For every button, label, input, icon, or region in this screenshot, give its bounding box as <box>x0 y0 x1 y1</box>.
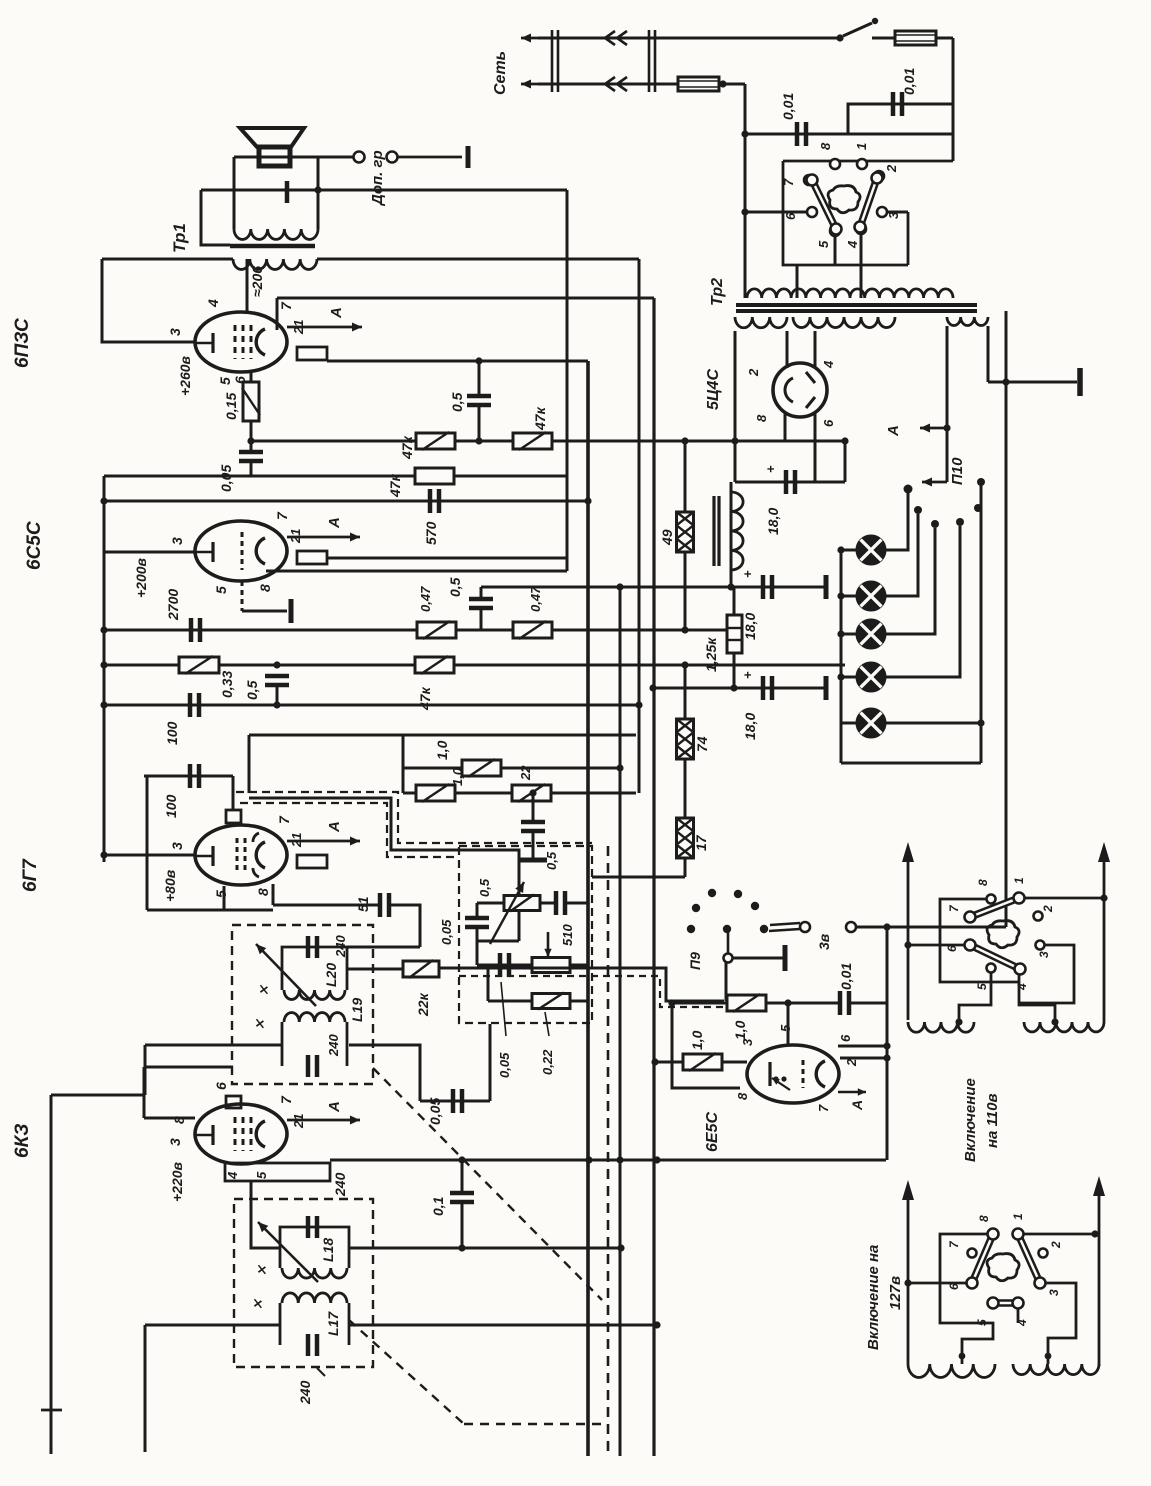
svg-text:2: 2 <box>1041 905 1055 913</box>
cathode ground bar 6S5S <box>289 599 294 623</box>
label +80v <box>162 869 178 902</box>
L18 tank <box>280 1216 349 1278</box>
wire cap51 to x420 <box>389 905 420 947</box>
label Set <box>492 51 509 95</box>
mark x3 <box>254 1264 269 1276</box>
svg-text:≈206: ≈206 <box>249 266 265 297</box>
wire row735 <box>249 734 636 737</box>
wire cap d dn <box>532 831 535 858</box>
svg-text:П10: П10 <box>949 457 966 485</box>
svg-text:L18: L18 <box>320 1238 336 1262</box>
tube 6G7 (BG7) <box>195 825 287 885</box>
junction <box>731 437 738 444</box>
svg-text:1,0: 1,0 <box>434 740 450 760</box>
T1 core bar <box>230 244 315 249</box>
5c4s pin8 <box>784 412 787 441</box>
wire cap51 row <box>273 904 380 907</box>
lamp stub <box>841 633 856 636</box>
lbl5 <box>816 240 831 248</box>
v5 <box>975 983 989 990</box>
svg-text:1: 1 <box>1012 877 1026 884</box>
lamp stub <box>841 722 856 725</box>
svg-text:6: 6 <box>213 1082 229 1090</box>
wire cap 05b dn <box>480 608 483 630</box>
svg-text:5: 5 <box>975 1319 989 1326</box>
110v pin1 <box>1015 894 1024 903</box>
x144 <box>143 1067 146 1118</box>
label 0,1 <box>430 1196 446 1216</box>
127v coil row a <box>908 1364 995 1377</box>
p8 e <box>735 1092 750 1100</box>
label BL3S <box>12 318 33 368</box>
svg-text:+80в: +80в <box>162 869 178 902</box>
svg-text:0,05: 0,05 <box>218 465 234 492</box>
tube 6P3S (BL3S) <box>195 312 287 372</box>
junction <box>837 546 844 553</box>
w1 <box>1011 1213 1025 1220</box>
svg-text:47к: 47к <box>532 406 548 431</box>
label 22k <box>415 992 431 1017</box>
3v connector <box>800 922 856 932</box>
svg-text:1,0: 1,0 <box>689 1030 705 1050</box>
junction <box>653 1321 660 1328</box>
P9 lever <box>724 929 733 963</box>
svg-text:+220в: +220в <box>169 1161 185 1202</box>
lamp5 lead <box>886 722 981 725</box>
lamp right vert <box>980 482 983 763</box>
v4 <box>1015 983 1029 991</box>
label pin5 BG7 <box>213 890 229 898</box>
ground bar jack <box>466 146 471 168</box>
svg-text:3: 3 <box>167 1138 183 1146</box>
lamp3 lead <box>886 528 935 634</box>
127v pin7 <box>968 1249 977 1258</box>
110v pin8 <box>987 895 996 904</box>
wire row441 <box>251 440 845 443</box>
label A right <box>885 425 902 437</box>
junction <box>883 923 890 930</box>
cap stub <box>848 104 953 134</box>
L18 out <box>349 1247 621 1250</box>
resistor 74 <box>677 719 694 759</box>
arrow A 6K3 <box>287 1116 360 1125</box>
label +220v <box>169 1161 185 1202</box>
label pin3 6P3S <box>167 328 183 336</box>
svg-text:8: 8 <box>257 584 273 592</box>
bus x639 <box>638 259 641 793</box>
5c4s pin6 <box>814 412 817 482</box>
wire x685 c <box>684 665 687 719</box>
wire rail y259 left <box>102 258 233 261</box>
r125 dn <box>733 653 736 688</box>
svg-text:0,01: 0,01 <box>780 93 796 120</box>
choke core <box>714 496 719 566</box>
L19 tank <box>282 1013 347 1077</box>
dial lamp 5 <box>857 709 886 738</box>
row877 <box>592 876 685 879</box>
svg-text:240: 240 <box>297 1380 313 1405</box>
label 47k a <box>399 435 415 460</box>
resistor 0,47 b <box>513 621 552 639</box>
label Tr2 <box>709 278 726 306</box>
wire tab row y361 <box>327 360 588 363</box>
label 0,47 a <box>418 586 433 612</box>
svg-text:47к: 47к <box>399 435 415 460</box>
wire cap05 up <box>478 361 481 396</box>
wire left bus x104 <box>103 476 106 862</box>
capacitor 2700 <box>191 618 200 642</box>
junction <box>617 1244 624 1251</box>
svg-text:6ПЗС: 6ПЗС <box>12 318 33 368</box>
svg-text:А: А <box>326 821 343 833</box>
wire x145 <box>144 1045 147 1095</box>
capacitor 0,5 (587-630) <box>469 599 493 608</box>
label 0,33 <box>219 671 235 698</box>
capacitor 0,01 a <box>797 122 806 146</box>
junction switch <box>836 34 843 41</box>
label 0,22 <box>540 1049 555 1075</box>
junction <box>100 851 107 858</box>
wire fuse2 right <box>719 83 745 86</box>
T-ground <box>519 858 547 863</box>
IF box 1 dashed <box>234 1199 373 1367</box>
T2 sec a <box>735 317 787 328</box>
wire L19 left <box>251 1044 282 1047</box>
127v left arrow <box>902 1180 914 1364</box>
label 0,05 (6P3S) <box>218 465 234 492</box>
pair dashed <box>459 976 724 1007</box>
v2 <box>1041 905 1055 913</box>
w5 <box>975 1319 989 1326</box>
label 1,0 aP9 <box>732 1020 748 1040</box>
arrow to pot2 <box>544 932 551 957</box>
junction <box>314 186 321 193</box>
bus x1006 <box>1005 311 1008 927</box>
svg-text:570: 570 <box>423 521 439 545</box>
T1 primary bumps <box>234 229 318 239</box>
svg-text:0,5: 0,5 <box>544 851 559 870</box>
svg-text:5: 5 <box>213 890 229 898</box>
svg-text:7: 7 <box>781 178 796 186</box>
svg-text:4: 4 <box>1015 983 1029 991</box>
110v coil row a <box>908 1022 974 1032</box>
resistor 1,0 row768 <box>462 759 501 777</box>
wire switch to fuse <box>872 37 895 40</box>
P9 dots row2 <box>687 925 768 933</box>
mark x1 <box>256 984 271 996</box>
gang dashed horiz <box>464 1423 608 1425</box>
svg-text:3: 3 <box>169 537 185 545</box>
capacitor 18,0 b <box>763 575 772 599</box>
transformer T1 frame <box>234 157 318 229</box>
svg-text:5: 5 <box>254 1171 269 1179</box>
110v wiring <box>908 898 1104 1022</box>
5c4s pin4 <box>814 331 817 368</box>
label pin3 6S5S <box>169 537 185 545</box>
row1160 <box>330 1159 886 1162</box>
P10 arrow <box>922 478 947 487</box>
grid stub 6K3 <box>232 1095 235 1096</box>
svg-text:1: 1 <box>1011 1213 1025 1220</box>
svg-text:⨯: ⨯ <box>250 1298 265 1310</box>
label 74 <box>694 736 710 752</box>
wire row1001 <box>488 1000 532 1003</box>
junction <box>943 424 950 431</box>
tick x51 <box>41 1409 62 1412</box>
wire row793 <box>403 792 636 795</box>
label L17 <box>325 1311 341 1336</box>
voice coil bar <box>285 181 290 203</box>
junction <box>635 701 642 708</box>
5c4s pin2 <box>786 331 789 368</box>
label 0,01 b <box>901 68 917 95</box>
arrow A right <box>920 424 947 433</box>
bus x589 <box>586 361 590 1456</box>
svg-text:6С5С: 6С5С <box>24 521 45 570</box>
wire row910 <box>147 909 273 912</box>
row1062 <box>655 1061 747 1064</box>
label 6S5S <box>24 521 45 570</box>
chevrons1 <box>605 31 627 45</box>
P10 contact 5 <box>974 504 982 512</box>
svg-text:3: 3 <box>1047 1289 1061 1296</box>
tube 6E5S <box>747 1045 839 1103</box>
junction <box>585 1156 592 1163</box>
svg-text:6: 6 <box>947 1283 961 1290</box>
lamp bus left <box>840 550 843 763</box>
svg-text:8: 8 <box>735 1092 750 1100</box>
svg-text:8: 8 <box>754 414 769 422</box>
mark x2 <box>252 1018 267 1030</box>
junction <box>616 583 623 590</box>
svg-text:74: 74 <box>694 736 710 752</box>
capacitor 18,0 c <box>763 676 772 700</box>
svg-text:3: 3 <box>167 328 183 336</box>
svg-text:18,0: 18,0 <box>742 713 758 740</box>
label 18,0 a <box>765 508 781 535</box>
label pin3 BG7 <box>169 842 185 850</box>
svg-text:4: 4 <box>225 1171 240 1180</box>
x887 <box>886 927 889 1160</box>
row1118 <box>144 1117 195 1120</box>
wire tube to r015 <box>250 372 253 382</box>
svg-text:L17: L17 <box>325 1311 341 1336</box>
label 1,0 bP9 <box>689 1030 705 1050</box>
svg-text:Сеть: Сеть <box>492 51 509 95</box>
label L18 <box>320 1238 336 1262</box>
label P9 <box>687 952 703 970</box>
wire x745 <box>744 84 747 298</box>
w2 <box>1049 1241 1063 1249</box>
pot arrow <box>490 882 524 944</box>
wire cap c dn <box>276 685 279 705</box>
p3 k <box>167 1138 183 1146</box>
P10 contact 3 <box>931 520 939 528</box>
svg-text:2: 2 <box>1049 1241 1063 1249</box>
gang dashed diagonal 1 <box>373 1068 602 1300</box>
w6 <box>947 1283 961 1290</box>
row688 <box>653 687 826 690</box>
tube 5Ts4S <box>773 363 827 417</box>
6e5s pin6 <box>838 1045 887 1048</box>
resistor 1,25k <box>727 615 742 653</box>
label A k <box>326 1101 343 1113</box>
junction <box>1051 1018 1058 1025</box>
sel wire pin6 <box>745 211 806 214</box>
P9 dots row1 <box>692 889 759 912</box>
svg-text:8: 8 <box>976 879 990 886</box>
svg-text:⨯: ⨯ <box>252 1018 267 1030</box>
svg-text:+: + <box>740 570 755 578</box>
mains line1 <box>538 37 840 40</box>
resistor 22k <box>403 960 439 978</box>
wire x567 <box>566 190 569 571</box>
label pin8 6S5S <box>257 584 273 592</box>
junction <box>730 684 737 691</box>
pair up to lever <box>725 962 728 1001</box>
junction <box>727 583 734 590</box>
junction <box>273 701 280 708</box>
junction <box>784 999 791 1006</box>
wire x735 <box>734 331 737 441</box>
svg-text:0,01: 0,01 <box>838 963 854 990</box>
junction <box>458 1156 465 1163</box>
wire x477 b <box>476 927 479 965</box>
lamp bottom <box>841 762 981 765</box>
110v left arrow <box>902 842 914 1020</box>
fuse 1 <box>895 31 936 45</box>
capacitor 51 <box>380 893 389 917</box>
label BG7 <box>20 858 41 892</box>
label ~206 <box>249 266 265 297</box>
svg-text:47к: 47к <box>417 686 433 711</box>
svg-text:+: + <box>763 465 778 473</box>
v7 <box>947 904 961 912</box>
110v coil row b <box>1024 1022 1104 1032</box>
label 1,0 row793 <box>450 767 465 786</box>
arrow A 6S5S <box>287 533 360 542</box>
label 100 a <box>164 721 180 745</box>
p6 k <box>213 1082 229 1090</box>
lbl7 <box>781 178 796 186</box>
svg-text:0,33: 0,33 <box>219 671 235 698</box>
junction <box>616 1156 623 1163</box>
svg-text:0,5: 0,5 <box>477 878 492 897</box>
3v right <box>856 926 1006 929</box>
arrow A 6P3S <box>287 323 362 332</box>
wire row552 pin3 6S5S <box>104 551 195 554</box>
junction <box>1002 378 1009 385</box>
label 5Ts4S <box>705 369 722 410</box>
junction <box>475 357 482 364</box>
grid cap 6K3 <box>226 1096 241 1108</box>
label 100 b <box>163 794 179 818</box>
110v right arrow <box>1098 842 1110 1022</box>
arrow mains 1 <box>521 34 545 43</box>
label 240 L19 <box>326 1034 341 1057</box>
svg-text:1,0: 1,0 <box>732 1020 748 1040</box>
svg-text:+: + <box>740 671 755 679</box>
label pin7 6P3S <box>278 301 294 310</box>
junction <box>100 626 107 633</box>
wire cap 05b up <box>480 587 483 599</box>
p2 e <box>844 1058 859 1067</box>
sel pin3 <box>877 207 887 217</box>
label 0,5 top <box>449 392 465 412</box>
svg-text:6: 6 <box>945 945 959 952</box>
selector box <box>783 161 953 265</box>
wire pot1 left <box>477 902 504 905</box>
svg-text:П9: П9 <box>687 952 703 970</box>
bus x655 <box>652 298 655 1456</box>
label pin8 BG7 <box>255 888 271 896</box>
resistor 1,0 b P9 <box>683 1053 722 1071</box>
wire row587 <box>481 586 621 589</box>
plus b <box>740 570 755 578</box>
junction <box>977 719 984 726</box>
wire speaker top to jack <box>234 156 318 159</box>
P10 contact 1 <box>904 485 913 494</box>
bus x620 <box>619 587 622 1456</box>
v1 <box>1012 877 1026 884</box>
wire y947 to L20 <box>347 946 420 949</box>
junction <box>475 437 482 444</box>
127v cam <box>987 1254 1019 1281</box>
label 0,05 b <box>497 1052 512 1078</box>
svg-text:L19: L19 <box>349 998 365 1022</box>
junction <box>273 661 280 668</box>
sel pin2 <box>874 171 884 181</box>
127v right arrow <box>1093 1176 1105 1366</box>
svg-text:7: 7 <box>816 1104 831 1112</box>
arrow A BG7 <box>287 837 360 846</box>
wire tab row 558 <box>327 557 567 560</box>
lamp stub <box>841 676 856 679</box>
resistor 47k row441a <box>416 432 455 450</box>
ground bar 18c <box>824 676 829 700</box>
svg-text:1,25к: 1,25к <box>703 637 719 672</box>
svg-text:240: 240 <box>333 935 348 958</box>
junction <box>837 673 844 680</box>
svg-text:1,0: 1,0 <box>450 767 465 786</box>
cap01 dn <box>461 1202 464 1248</box>
leader 0,22 <box>545 1012 549 1036</box>
svg-text:⨯: ⨯ <box>256 984 271 996</box>
svg-text:6: 6 <box>838 1034 853 1042</box>
anode tab 6S5S <box>297 551 327 564</box>
junction <box>681 626 688 633</box>
resistor 47k row476 <box>415 468 454 484</box>
label 21 BG7 <box>289 833 304 848</box>
label 510 <box>560 924 575 946</box>
ground row y382 <box>988 381 1077 384</box>
w3 <box>1047 1289 1061 1296</box>
junction <box>653 1156 660 1163</box>
110v lever b <box>965 940 1026 975</box>
label L20 <box>323 963 339 987</box>
junction <box>668 999 675 1006</box>
sel pin4 <box>856 224 866 234</box>
wire row630 <box>104 629 735 632</box>
label 47k b <box>532 406 548 431</box>
junction <box>649 684 656 691</box>
svg-text:4: 4 <box>1015 1319 1029 1327</box>
wire row571 <box>266 570 567 573</box>
svg-text:47к: 47к <box>387 473 403 498</box>
junction <box>883 1054 890 1061</box>
label 3v <box>816 933 832 950</box>
label pin4 <box>205 299 221 308</box>
